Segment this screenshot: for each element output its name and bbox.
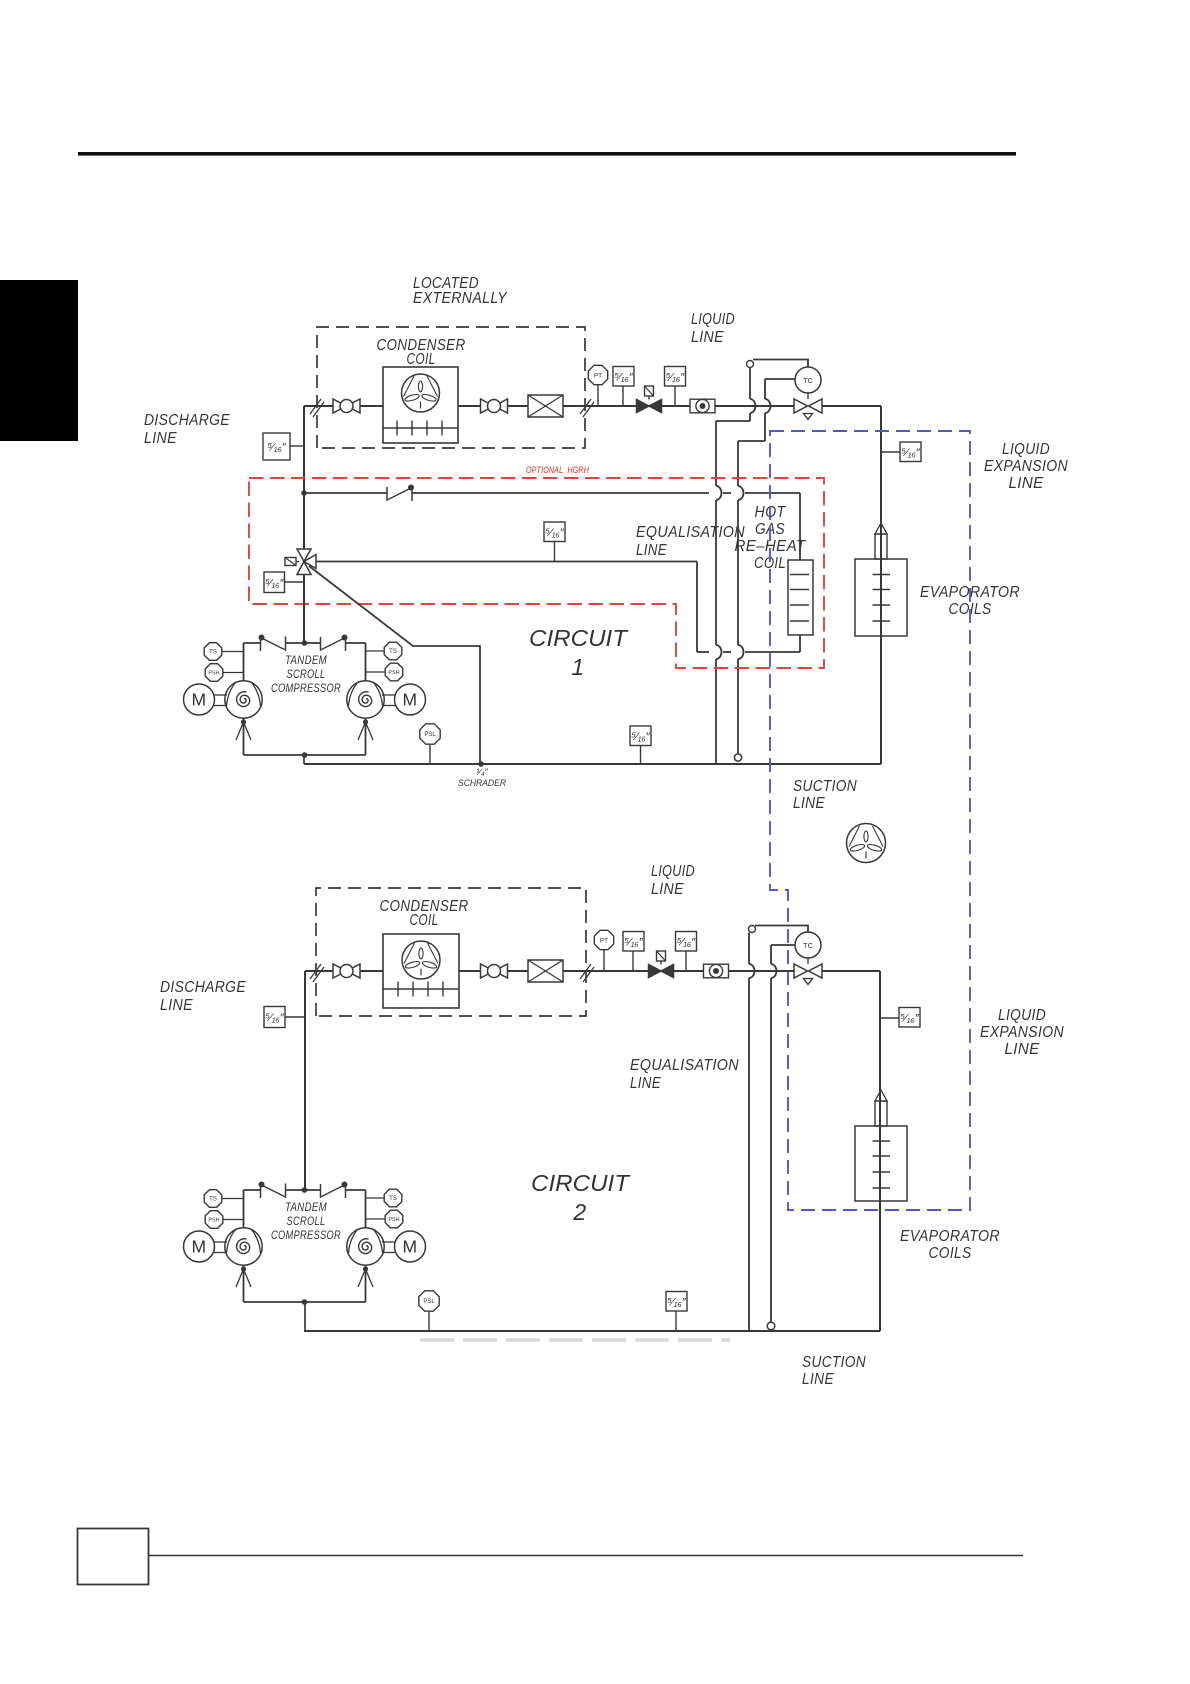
svg-text:PSH: PSH (208, 670, 219, 676)
label TANDEM SCROLL COMPRESSOR circuit 2 (271, 1200, 341, 1242)
pressure switch PSL circuit 1 (420, 724, 440, 764)
wire equalizer drop circuit 2 (748, 978, 750, 1331)
suction arrow left circuit 2 (236, 1266, 251, 1287)
wire condenser outlet to TEV circuit 1 (458, 405, 794, 407)
label SUCTION LINE circuit 2 (802, 1354, 866, 1388)
svg-text:LINE: LINE (802, 1371, 834, 1388)
label CIRCUIT 1 (529, 625, 629, 680)
size tag 5/16 discharge riser circuit 2 (264, 1007, 305, 1028)
svg-text:LIQUID: LIQUID (998, 1007, 1046, 1024)
tandem scroll compressor box circuit 1 (244, 635, 366, 758)
label CONDENSER COIL circuit 2 (380, 898, 469, 929)
optional HGRH dashed zone (249, 478, 824, 668)
svg-text:SCHRADER: SCHRADER (458, 778, 506, 788)
size tag 5/16 equalisation line circuit 1 (544, 522, 565, 562)
pipe jump capillary over liquid line circuit 2 (771, 964, 777, 978)
pipe jump capillary over hot gas line (738, 486, 744, 500)
svg-text:M: M (403, 690, 418, 710)
page header rule (78, 152, 1016, 156)
svg-text:LINE: LINE (636, 542, 667, 559)
wire equalizer drop circuit 1 (715, 421, 717, 764)
TEV sensing bulb circuit 1 (734, 754, 741, 761)
svg-text:M: M (192, 1237, 207, 1257)
svg-text:LINE: LINE (630, 1075, 661, 1092)
svg-text:EVAPORATOR: EVAPORATOR (900, 1228, 1000, 1245)
pipe jump equalizer over liquid line circuit 1 (750, 399, 756, 413)
suction arrow right circuit 1 (358, 719, 373, 740)
svg-text:¹⁄₄″: ¹⁄₄″ (476, 767, 488, 777)
svg-text:PSH: PSH (208, 1217, 219, 1223)
pipe break symbol liquid circuit 1 (580, 399, 594, 417)
wire hot gas line circuit 1 (304, 493, 800, 560)
filter drier circuit 1 (528, 395, 563, 417)
thermostatic expansion valve circuit 2 (794, 964, 822, 985)
svg-text:COMPRESSOR: COMPRESSOR (271, 681, 341, 695)
pipe jump equalizer over liquid line circuit 2 (749, 964, 755, 978)
sight glass circuit 1 (690, 399, 715, 413)
distributor pencil circuit 1 (875, 523, 887, 534)
size tag 5/16 liquid line a circuit 1 (613, 367, 634, 407)
scroll compressor right circuit 1 (347, 681, 384, 718)
label HOT GAS RE-HEAT COIL (735, 504, 807, 572)
wire discharge riser circuit 2 (304, 971, 306, 1190)
svg-text:DISCHARGE: DISCHARGE (144, 412, 230, 429)
pressure switch PSH left circuit 1 (205, 664, 243, 682)
liquid expansion dashed zone (770, 431, 970, 1210)
label EQUALISATION LINE circuit 2 (630, 1057, 739, 1092)
motor M right circuit 1 (382, 684, 426, 715)
svg-text:COIL: COIL (410, 912, 439, 929)
label LIQUID LINE circuit 1 (691, 311, 735, 346)
hot gas re-heat coil box (788, 560, 813, 635)
svg-text:⁵⁄₁₆″: ⁵⁄₁₆″ (545, 527, 564, 539)
page footer box (78, 1529, 149, 1585)
distributor body circuit 2 (875, 1101, 887, 1126)
svg-text:LINE: LINE (651, 881, 684, 898)
label EVAPORATOR COILS circuit 2 (900, 1228, 1000, 1262)
svg-text:LIQUID: LIQUID (651, 863, 695, 880)
svg-text:⁵⁄₁₆″: ⁵⁄₁₆″ (614, 371, 633, 383)
evaporator coil box circuit 2 (855, 1126, 907, 1201)
wire suction line circuit 2 (304, 1330, 880, 1332)
svg-text:COIL: COIL (407, 351, 436, 368)
svg-text:COILS: COILS (929, 1245, 972, 1262)
pressure switch PSH right circuit 2 (366, 1210, 403, 1228)
suction arrow left circuit 1 (236, 719, 251, 740)
ball valve condenser outlet circuit 1 (481, 399, 508, 413)
capped line symbol hot gas line (387, 485, 414, 502)
wire condenser outlet to TEV circuit 2 (458, 970, 794, 972)
wire liquid expansion drop circuit 1 (880, 406, 882, 764)
junction dot hot gas takeoff circuit 1 (301, 490, 307, 496)
wire TC equalizer top loop circuit 2 (755, 926, 808, 933)
pressure switch PSH right circuit 1 (366, 663, 403, 681)
svg-text:LINE: LINE (160, 997, 193, 1014)
size tag 5/16 discharge riser circuit 1 (263, 433, 304, 460)
TEV equalizer connection circle circuit 2 (749, 926, 756, 933)
left margin tab (0, 280, 78, 441)
temperature switch TS left circuit 1 (204, 643, 243, 661)
wire liquid expansion drop circuit 2 (879, 971, 881, 1331)
dashed enclosure LOCATED EXTERNALLY circuit 1 (317, 327, 585, 448)
svg-text:TS: TS (209, 1197, 217, 1203)
evaporator fan symbol (847, 824, 886, 863)
svg-text:CIRCUIT: CIRCUIT (531, 1170, 631, 1196)
size tag 5/16 suction line circuit 1 (630, 726, 651, 764)
svg-text:PT: PT (594, 372, 602, 379)
svg-text:TC: TC (803, 376, 814, 385)
svg-text:EXPANSION: EXPANSION (984, 458, 1068, 475)
svg-text:2: 2 (572, 1199, 586, 1225)
condenser coil box circuit 2 (383, 934, 459, 1008)
label EQUALISATION LINE circuit 1 (636, 524, 745, 559)
pipe break symbol discharge circuit 1 (310, 399, 324, 417)
svg-text:EXTERNALLY: EXTERNALLY (413, 290, 508, 307)
wire equalizer riser circuit 2 (748, 933, 750, 965)
suction line scan ghost (420, 1338, 730, 1341)
pressure switch PSH left circuit 2 (205, 1211, 243, 1229)
wire TEV bulb capillary circuit 1 (738, 379, 795, 441)
TEV equalizer connection circle circuit 1 (747, 361, 754, 368)
svg-text:TS: TS (389, 649, 397, 655)
label DISCHARGE LINE circuit 2 (160, 979, 246, 1014)
svg-text:LIQUID: LIQUID (1002, 441, 1050, 458)
pipe jump capillary over liquid line circuit 1 (765, 399, 771, 413)
svg-text:LINE: LINE (144, 430, 177, 447)
svg-text:⁵⁄₁₆″: ⁵⁄₁₆″ (900, 1012, 919, 1024)
svg-text:OPTIONAL HGRH: OPTIONAL HGRH (526, 465, 589, 476)
svg-text:LINE: LINE (1005, 1041, 1040, 1058)
evaporator coil box circuit 1 (855, 559, 907, 636)
pressure switch PSL circuit 2 (419, 1291, 439, 1331)
svg-text:⁵⁄₁₆″: ⁵⁄₁₆″ (265, 1012, 284, 1024)
three-way hot gas valve circuit 1 (285, 549, 316, 575)
tandem scroll compressor box circuit 2 (244, 1182, 366, 1305)
wire compressor suction stub circuit 2 (304, 1302, 306, 1331)
pipe jump capillary over return line (738, 645, 744, 659)
label CONDENSER COIL circuit 1 (377, 337, 466, 368)
svg-text:EQUALISATION: EQUALISATION (630, 1057, 739, 1074)
pressure transducer PT circuit 1 (588, 365, 607, 406)
svg-text:SCROLL: SCROLL (287, 1214, 326, 1228)
svg-text:⁵⁄₁₆″: ⁵⁄₁₆″ (677, 936, 696, 948)
condenser fan symbol circuit 1 (402, 374, 440, 412)
svg-text:⁵⁄₁₆″: ⁵⁄₁₆″ (631, 731, 650, 743)
motor M right circuit 2 (382, 1231, 426, 1262)
solenoid valve circuit 2 (649, 951, 674, 978)
svg-text:⁵⁄₁₆″: ⁵⁄₁₆″ (265, 577, 284, 589)
label LIQUID LINE circuit 2 (651, 863, 695, 898)
distributor pencil circuit 2 (875, 1090, 887, 1101)
size tag 5/16 liquid line b circuit 1 (665, 367, 686, 407)
label LIQUID EXPANSION LINE circuit 1 (984, 441, 1068, 492)
ball valve condenser inlet circuit 2 (333, 964, 360, 978)
condenser fan symbol circuit 2 (402, 941, 440, 979)
pipe jump equalizer over hot gas line (716, 486, 722, 500)
sight glass circuit 2 (704, 964, 729, 978)
scroll compressor left circuit 2 (225, 1228, 262, 1265)
condenser coil box circuit 1 (383, 367, 458, 443)
wire compressor suction stub circuit 1 (303, 755, 305, 764)
wire suction line circuit 1 (304, 763, 881, 765)
pressure transducer PT circuit 2 (594, 930, 613, 971)
motor M left circuit 1 (184, 684, 228, 715)
size tag 5/16 liquid line a circuit 2 (623, 932, 644, 972)
filter drier circuit 2 (528, 960, 563, 982)
svg-text:SCROLL: SCROLL (287, 667, 326, 681)
distributor body circuit 1 (875, 534, 887, 559)
thermostatic expansion valve circuit 1 (794, 399, 822, 420)
label LIQUID EXPANSION LINE circuit 2 (980, 1007, 1064, 1058)
wire discharge riser circuit 1 (303, 406, 305, 549)
motor M left circuit 2 (184, 1231, 228, 1262)
svg-text:1: 1 (571, 654, 584, 680)
pipe break symbol liquid circuit 2 (580, 964, 594, 982)
svg-text:COMPRESSOR: COMPRESSOR (271, 1228, 341, 1242)
TEV sensing bulb circuit 2 (767, 1322, 775, 1330)
svg-text:SUCTION: SUCTION (793, 778, 857, 795)
label TANDEM SCROLL COMPRESSOR circuit 1 (271, 653, 341, 695)
wire TC equalizer top loop circuit 1 (753, 360, 808, 368)
label EVAPORATOR COILS circuit 1 (920, 584, 1020, 618)
temperature switch TS left circuit 2 (204, 1190, 243, 1208)
scroll compressor left circuit 1 (225, 681, 262, 718)
pipe break symbol discharge circuit 2 (310, 964, 324, 982)
pipe jump equalizer over return line (716, 645, 722, 659)
label DISCHARGE LINE circuit 1 (144, 412, 230, 447)
label LOCATED EXTERNALLY (413, 275, 508, 307)
label CIRCUIT 2 (531, 1170, 631, 1225)
temperature switch TS right circuit 2 (366, 1189, 402, 1207)
svg-text:LIQUID: LIQUID (691, 311, 735, 328)
svg-text:PSL: PSL (424, 732, 436, 738)
temperature switch TS right circuit 1 (366, 642, 402, 660)
scroll compressor right circuit 2 (347, 1228, 384, 1265)
svg-text:⁵⁄₁₆″: ⁵⁄₁₆″ (267, 442, 286, 454)
ball valve condenser inlet circuit 1 (333, 399, 360, 413)
label 1/4 SCHRADER (458, 767, 506, 788)
wire bulb capillary drop circuit 1 (737, 441, 739, 754)
svg-text:PSH: PSH (388, 1217, 399, 1223)
svg-text:TS: TS (389, 1196, 397, 1202)
wire three-way valve to compressor circuit 1 (303, 575, 305, 644)
schrader port junction circuit 1 (478, 761, 484, 767)
size tag 5/16 expansion line circuit 2 (880, 1008, 920, 1028)
svg-text:PSH: PSH (388, 670, 399, 676)
solenoid valve circuit 1 (637, 386, 662, 413)
svg-text:EQUALISATION: EQUALISATION (636, 524, 745, 541)
svg-text:TS: TS (209, 650, 217, 656)
svg-text:TC: TC (803, 941, 814, 950)
size tag 5/16 liquid line b circuit 2 (676, 932, 697, 972)
svg-text:⁵⁄₁₆″: ⁵⁄₁₆″ (666, 371, 685, 383)
svg-text:LINE: LINE (1009, 475, 1044, 492)
svg-text:TANDEM: TANDEM (285, 1200, 327, 1214)
label SUCTION LINE circuit 1 (793, 778, 857, 812)
svg-text:PSL: PSL (423, 1299, 435, 1305)
ball valve condenser outlet circuit 2 (481, 964, 508, 978)
svg-text:⁵⁄₁₆″: ⁵⁄₁₆″ (624, 936, 643, 948)
wire TEV outlet circuit 2 (822, 970, 880, 972)
svg-text:M: M (192, 690, 207, 710)
wire discharge line circuit 2 (condenser inlet) (305, 970, 383, 972)
wire discharge line circuit 1 (condenser inlet) (304, 405, 383, 407)
wire TEV bulb capillary circuit 2 (771, 945, 795, 964)
thermostatic controller TC circuit 1 (795, 367, 821, 399)
wire TEV outlet circuit 1 (822, 405, 881, 407)
size tag 5/16 below three-way valve circuit 1 (264, 572, 304, 593)
svg-text:CIRCUIT: CIRCUIT (529, 625, 629, 651)
svg-text:LINE: LINE (691, 329, 724, 346)
size tag 5/16 suction line circuit 2 (666, 1292, 687, 1332)
svg-text:EXPANSION: EXPANSION (980, 1024, 1064, 1041)
suction arrow right circuit 2 (358, 1266, 373, 1287)
svg-text:DISCHARGE: DISCHARGE (160, 979, 246, 996)
wire equalizer riser circuit 1 (716, 368, 750, 422)
svg-text:SUCTION: SUCTION (802, 1354, 866, 1371)
svg-text:TANDEM: TANDEM (285, 653, 327, 667)
thermostatic controller TC circuit 2 (795, 932, 821, 964)
svg-text:LINE: LINE (793, 795, 825, 812)
svg-text:M: M (403, 1237, 418, 1257)
label OPTIONAL HGRH (526, 465, 589, 476)
dashed enclosure LOCATED EXTERNALLY circuit 2 (316, 888, 586, 1016)
wire equalisation line circuit 1 (316, 561, 697, 563)
wire bulb capillary drop circuit 2 (770, 978, 772, 1322)
page footer rule (149, 1555, 1023, 1557)
wire re-heat coil return circuit 1 (697, 562, 800, 653)
size tag 5/16 expansion line circuit 1 (881, 442, 921, 462)
svg-text:⁵⁄₁₆″: ⁵⁄₁₆″ (667, 1296, 686, 1308)
wire suction branch diagonal circuit 1 (309, 566, 480, 764)
svg-text:⁵⁄₁₆″: ⁵⁄₁₆″ (901, 447, 920, 459)
svg-text:PT: PT (600, 937, 608, 944)
